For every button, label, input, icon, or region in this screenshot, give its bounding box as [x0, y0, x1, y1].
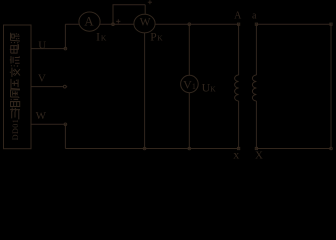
svg-text:U: U	[38, 39, 46, 51]
svg-text:A: A	[84, 14, 94, 29]
svg-text:W: W	[140, 17, 151, 29]
svg-text:K: K	[157, 33, 163, 42]
svg-text:X: X	[255, 150, 263, 162]
svg-text:I: I	[96, 31, 100, 43]
svg-text:V: V	[183, 78, 192, 92]
svg-text:W: W	[36, 110, 47, 122]
svg-text:x: x	[233, 148, 239, 162]
svg-text:V: V	[38, 73, 46, 85]
svg-text:K: K	[210, 84, 216, 93]
svg-text:P: P	[150, 31, 156, 43]
svg-text:A: A	[234, 11, 242, 22]
svg-text:K: K	[101, 33, 107, 42]
svg-text:DD01: DD01	[11, 119, 20, 141]
svg-text:a: a	[252, 11, 257, 22]
svg-text:1: 1	[192, 82, 196, 91]
